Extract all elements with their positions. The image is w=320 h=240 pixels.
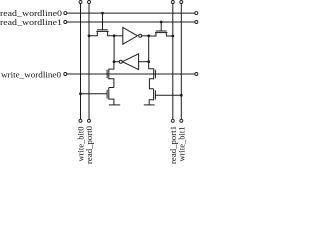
transistor read access T2 (gate on read_wordline1) (149, 22, 173, 36)
transistor write access T4 right (gate on write_wordline0) (149, 62, 156, 89)
node junction on read_port1 (171, 35, 174, 38)
channel bar (96, 30, 108, 32)
drain leg from node A (149, 62, 154, 69)
terminal read_wordline1 right (195, 21, 198, 24)
input wire (114, 35, 123, 37)
gate wire (102, 13, 104, 30)
wire read_wordline0 horizontal (67, 12, 195, 14)
wire read_port0 vertical (88, 4, 90, 120)
channel bar (153, 89, 155, 101)
channel bar (155, 32, 167, 34)
inverter U2 (node A to node B, points left) (114, 54, 149, 70)
source leg to read_port0 (89, 31, 97, 35)
terminal read_wordline0 left (64, 12, 67, 15)
source leg to node A (149, 33, 156, 36)
bubble (139, 34, 142, 37)
channel bar (108, 88, 110, 100)
node B top junction (113, 34, 116, 37)
input wire (139, 61, 149, 63)
node junction on read_port0 (88, 34, 91, 37)
node A top junction (147, 34, 150, 37)
gate wire from write_bit0 (81, 93, 108, 95)
terminal read_port1 bottom (171, 119, 174, 122)
node junction on write_bit1 (180, 94, 183, 97)
wire read_port1 vertical (172, 4, 174, 120)
channel bar (153, 69, 155, 80)
triangle (123, 27, 138, 44)
ground (144, 104, 155, 106)
svg-text:write_bit1: write_bit1 (177, 127, 186, 162)
terminal read_wordline0 right (195, 12, 198, 15)
gate bar (97, 29, 108, 31)
drain leg up to node B (109, 62, 114, 69)
drain leg to node B (108, 31, 115, 35)
node junction on read_wordline0 (101, 12, 104, 15)
node junction on write_bit0 (79, 92, 82, 95)
transistor write access T3 left (gate on write_wordline0) (107, 62, 114, 88)
terminal read_port1 top (171, 1, 174, 4)
node junction on read_wordline1 (160, 21, 163, 24)
junction dots (79, 12, 183, 97)
terminal write_bit1 top (180, 1, 183, 4)
output wire (114, 61, 119, 63)
wire write_wordline0 horizontal (67, 73, 195, 75)
svg-text:read_port0: read_port0 (85, 126, 94, 164)
channel bar (108, 69, 110, 80)
node A bottom junction (147, 60, 150, 63)
wire node A vertical (148, 36, 150, 62)
bubble (119, 60, 122, 63)
terminal read_wordline1 left (64, 21, 67, 24)
svg-text:read_wordline0: read_wordline0 (0, 9, 62, 18)
terminal read_port0 bottom (88, 119, 91, 122)
gate bar (156, 30, 167, 32)
source leg down to T6 (149, 79, 153, 89)
gate bar (106, 70, 108, 79)
source leg down to T5 (109, 79, 114, 88)
triangle (122, 54, 138, 70)
svg-text:read_wordline1: read_wordline1 (0, 18, 62, 27)
svg-text:write_wordline0: write_wordline0 (1, 70, 61, 79)
terminal write_wordline0 right (195, 73, 198, 76)
wire node B vertical (113, 36, 115, 62)
transistor write pulldown T6 right (gate on write_bit1) (144, 89, 182, 105)
wire write_bit0 vertical (80, 4, 82, 120)
terminal write_bit1 bottom (180, 119, 183, 122)
terminal write_bit0 top (79, 1, 82, 4)
output wire (142, 35, 149, 37)
transistor write pulldown T5 left (gate on write_bit0) (81, 88, 121, 105)
drain leg to read_port1 (166, 33, 172, 36)
ground (109, 104, 120, 106)
terminal write_wordline0 left (64, 73, 67, 76)
gate wire (160, 22, 162, 31)
inverter U1 (node B to node A, points right) (114, 27, 149, 44)
gate wire from write_bit1 (155, 94, 181, 96)
gate bar (154, 90, 156, 99)
wire read_wordline1 horizontal (67, 21, 195, 23)
terminal write_bit0 bottom (79, 119, 82, 122)
wire write_bit1 vertical (180, 4, 182, 120)
node B bottom junction (113, 60, 116, 63)
gate bar (154, 70, 156, 79)
source leg down to ground (149, 100, 153, 105)
drain leg up (109, 87, 114, 89)
transistor read access T1 (gate on read_wordline0) (89, 13, 114, 36)
terminal read_port0 top (88, 1, 91, 4)
gate bar (106, 90, 108, 99)
source leg down to ground (109, 99, 114, 105)
